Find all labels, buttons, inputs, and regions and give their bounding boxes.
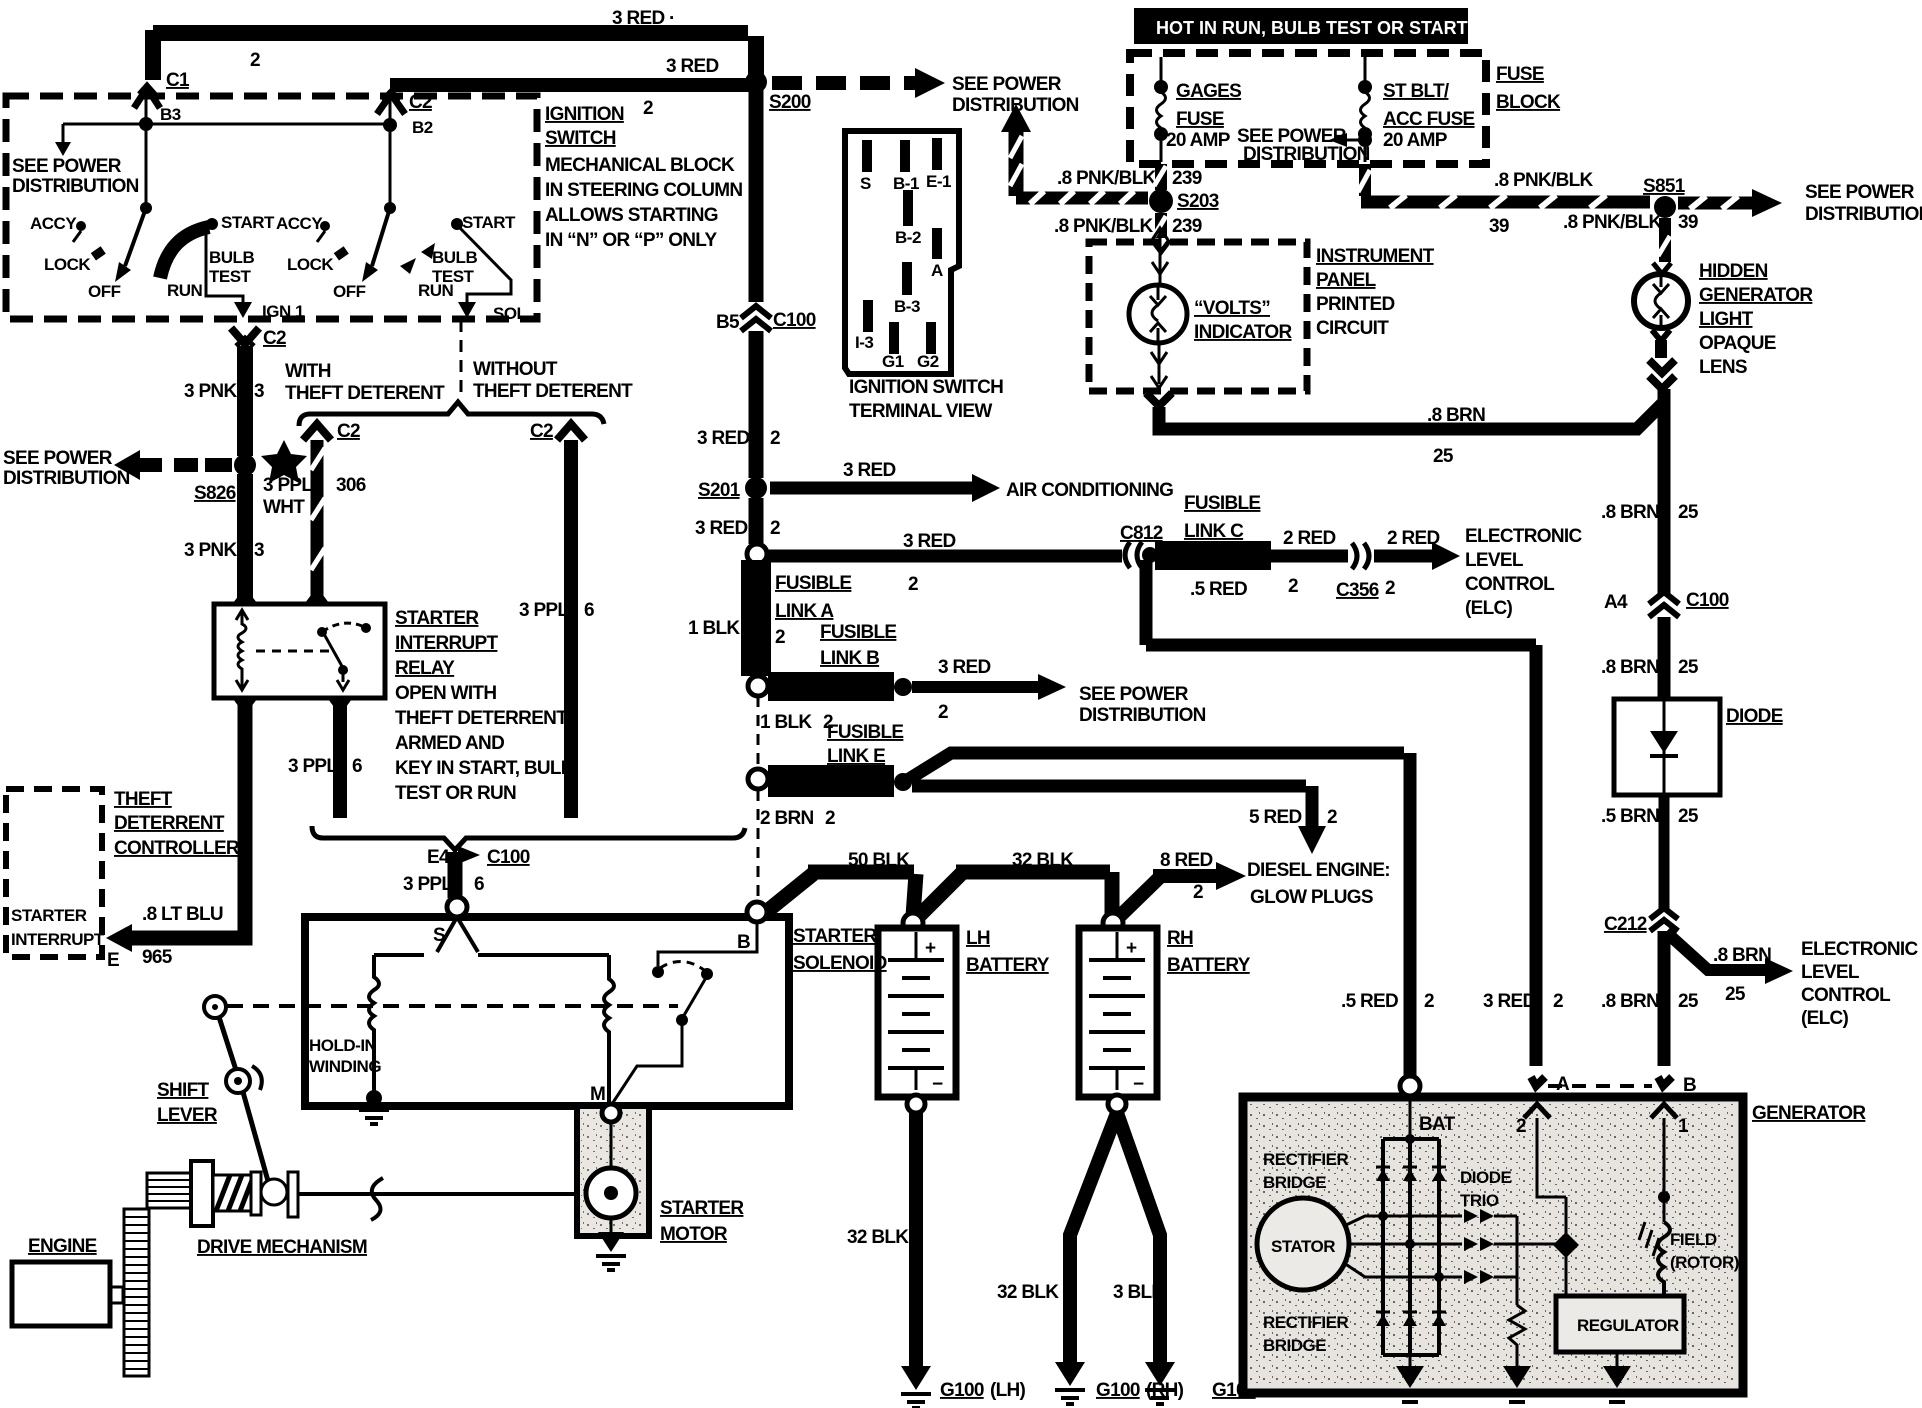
svg-text:HOT IN RUN, BULB TEST OR STAR: HOT IN RUN, BULB TEST OR START: [1156, 18, 1468, 38]
svg-text:THEFT DETERENT: THEFT DETERENT: [285, 383, 445, 404]
svg-text:C212: C212: [1604, 914, 1647, 935]
switch S blade: [437, 917, 457, 952]
svg-text:FUSE: FUSE: [1176, 109, 1224, 130]
switch wiper left: [125, 208, 146, 266]
svg-text:.8 BRN: .8 BRN: [1427, 405, 1485, 426]
dashed wire from SOL: [460, 320, 463, 400]
svg-text:ELECTRONIC: ELECTRONIC: [1465, 526, 1582, 547]
svg-text:LOCK: LOCK: [44, 255, 91, 274]
wire 5 RED arrow: [912, 780, 1306, 793]
svg-text:2: 2: [1553, 991, 1563, 1012]
svg-text:BLOCK: BLOCK: [1496, 92, 1561, 113]
svg-text:LOCK: LOCK: [287, 255, 334, 274]
grounds generator: [1410, 1352, 1617, 1368]
svg-text:STARTER: STARTER: [660, 1198, 744, 1219]
node circle link A/B: [748, 676, 768, 696]
terminal A arrow (2): [1524, 1104, 1550, 1118]
svg-text:.5 RED: .5 RED: [1341, 991, 1398, 1012]
fusible link C: [1155, 541, 1271, 570]
wire 2 RED to C356: [1271, 550, 1348, 563]
wire 3 RED 2 lower: [749, 498, 764, 544]
svg-text:DIODE: DIODE: [1726, 706, 1783, 727]
svg-text:32 BLK: 32 BLK: [847, 1227, 909, 1248]
node S203: [1149, 189, 1173, 213]
svg-text:BRIDGE: BRIDGE: [1263, 1336, 1326, 1355]
drive mechanism: [124, 1209, 149, 1376]
svg-text:IGN 1: IGN 1: [262, 302, 304, 321]
svg-text:IGNITION SWITCH: IGNITION SWITCH: [849, 377, 1003, 398]
wire 3 PPL 6: [564, 440, 578, 818]
svg-text:2: 2: [250, 50, 260, 71]
svg-text:STATOR: STATOR: [1271, 1237, 1335, 1256]
svg-text:25: 25: [1678, 502, 1699, 523]
svg-text:TEST OR RUN: TEST OR RUN: [395, 783, 516, 804]
svg-text:AIR CONDITIONING: AIR CONDITIONING: [1006, 480, 1173, 501]
wire link C down to A: [1140, 560, 1153, 645]
node M terminal: [602, 1104, 620, 1122]
svg-text:3 PNK: 3 PNK: [184, 540, 237, 561]
node B3: [139, 117, 153, 131]
svg-text:3: 3: [254, 381, 264, 402]
svg-text:3 PPL: 3 PPL: [519, 600, 569, 621]
lamp hidden generator light: [1634, 274, 1688, 328]
svg-text:WINDING: WINDING: [309, 1057, 381, 1076]
wire start to SOL: [459, 227, 511, 302]
wire hashed to S203: [1016, 192, 1148, 205]
svg-text:IN STEERING COLUMN: IN STEERING COLUMN: [545, 180, 742, 201]
svg-text:E: E: [107, 950, 119, 971]
rectifier bridge rails: [1409, 1096, 1412, 1139]
svg-text:3 PNK: 3 PNK: [184, 381, 237, 402]
svg-text:CONTROL: CONTROL: [1465, 574, 1555, 595]
terminal B arrow (1): [1651, 1104, 1677, 1118]
svg-text:S200: S200: [769, 92, 811, 113]
svg-text:25: 25: [1678, 657, 1699, 678]
svg-text:8 RED: 8 RED: [1160, 850, 1212, 871]
node S terminal: [447, 897, 467, 917]
field rotor coil: [1658, 1222, 1670, 1296]
svg-text:G2: G2: [917, 352, 939, 371]
node S851: [1654, 196, 1676, 218]
wire 3 PNK lower: [237, 474, 253, 604]
svg-text:SWITCH: SWITCH: [545, 128, 616, 149]
svg-text:TEST: TEST: [432, 267, 475, 286]
svg-text:RUN: RUN: [167, 281, 203, 300]
svg-text:G1: G1: [882, 352, 904, 371]
gages fuse: [1160, 57, 1163, 82]
svg-text:.8 BRN: .8 BRN: [1601, 657, 1659, 678]
shift lever: [204, 996, 226, 1018]
svg-text:3 RED ·: 3 RED ·: [612, 8, 675, 29]
banner hot in run: [1134, 8, 1468, 44]
pull-in winding coil right: [604, 955, 614, 1106]
instrument panel printed circuit box: [1089, 242, 1307, 391]
svg-text:FUSIBLE: FUSIBLE: [1184, 493, 1260, 514]
svg-text:TRIO: TRIO: [1460, 1191, 1499, 1210]
svg-text:C100: C100: [1686, 590, 1729, 611]
svg-text:2: 2: [908, 574, 918, 595]
svg-text:965: 965: [142, 947, 173, 968]
wire 8 RED arrow: [1120, 878, 1159, 916]
svg-text:SEE POWER: SEE POWER: [1079, 684, 1189, 705]
svg-text:DISTRIBUTION: DISTRIBUTION: [1243, 144, 1370, 165]
svg-text:GLOW PLUGS: GLOW PLUGS: [1250, 887, 1373, 908]
svg-text:3 RED: 3 RED: [695, 518, 747, 539]
wire arrow air conditioning: [770, 482, 972, 495]
svg-text:C2: C2: [263, 328, 286, 349]
svg-text:2: 2: [1424, 991, 1434, 1012]
svg-text:MOTOR: MOTOR: [660, 1224, 728, 1245]
fusible link A: [741, 560, 771, 676]
svg-text:B3: B3: [160, 105, 181, 124]
svg-text:3 RED: 3 RED: [843, 460, 895, 481]
wire to B terminal: [1658, 931, 1671, 1066]
svg-text:.8 PNK/BLK: .8 PNK/BLK: [1057, 168, 1157, 189]
svg-text:3 RED: 3 RED: [1483, 991, 1535, 1012]
wire terminal 2 to regulator: [1537, 1118, 1566, 1197]
svg-text:INSTRUMENT: INSTRUMENT: [1316, 246, 1435, 267]
fusible link E: [768, 765, 894, 797]
brace top: [299, 402, 604, 426]
svg-text:.5 RED: .5 RED: [1190, 579, 1247, 600]
svg-text:FIELD: FIELD: [1670, 1230, 1717, 1249]
svg-text:3: 3: [254, 540, 264, 561]
svg-text:DISTRIBUTION: DISTRIBUTION: [1805, 204, 1922, 225]
svg-text:LENS: LENS: [1699, 357, 1747, 378]
svg-text:B-3: B-3: [894, 297, 920, 316]
ground G101: [1145, 1362, 1175, 1386]
connector C100 B5: [741, 306, 771, 318]
stator: [1257, 1198, 1349, 1290]
svg-text:25: 25: [1678, 991, 1699, 1012]
wire 3 RED to C812: [767, 550, 1122, 563]
svg-text:C2: C2: [337, 421, 360, 442]
brace bottom: [312, 826, 745, 850]
svg-text:HIDDEN: HIDDEN: [1699, 261, 1768, 282]
lamp volts indicator: [1159, 230, 1162, 284]
svg-text:25: 25: [1678, 806, 1699, 827]
wire 3 PNK: [237, 346, 253, 456]
svg-text:2: 2: [1385, 578, 1395, 599]
svg-text:2: 2: [643, 98, 653, 119]
wire dashed to B: [757, 790, 760, 906]
svg-text:M: M: [590, 1084, 605, 1105]
svg-text:S: S: [860, 174, 871, 193]
svg-text:39: 39: [1489, 216, 1509, 237]
svg-text:LINK C: LINK C: [1184, 521, 1244, 542]
svg-text:2: 2: [1193, 882, 1203, 903]
wire relay to E: [128, 698, 245, 938]
svg-text:2: 2: [1327, 807, 1337, 828]
svg-text:DRIVE MECHANISM: DRIVE MECHANISM: [197, 1237, 367, 1258]
wire to BAT (gen): [909, 753, 1404, 779]
svg-text:LEVER: LEVER: [157, 1105, 218, 1126]
svg-text:2 RED: 2 RED: [1387, 528, 1439, 549]
svg-text:BULB: BULB: [209, 248, 254, 267]
svg-text:OFF: OFF: [333, 282, 366, 301]
svg-text:(ELC): (ELC): [1801, 1008, 1849, 1029]
wire S851 down to light: [1659, 218, 1671, 262]
wire arrow see power distribution: [912, 681, 1038, 693]
theft deterrent controller box: [6, 789, 102, 957]
svg-text:OPEN WITH: OPEN WITH: [395, 683, 496, 704]
svg-text:3 PPL/: 3 PPL/: [263, 475, 318, 496]
svg-text:.8 BRN: .8 BRN: [1601, 991, 1659, 1012]
svg-text:WHT: WHT: [263, 497, 305, 518]
svg-text:306: 306: [336, 475, 366, 496]
node S200: [745, 71, 767, 93]
svg-text:ACCY: ACCY: [30, 214, 77, 233]
svg-text:A4: A4: [1604, 592, 1628, 613]
svg-text:GAGES: GAGES: [1176, 81, 1241, 102]
svg-text:(ELC): (ELC): [1465, 598, 1513, 619]
svg-text:BATTERY: BATTERY: [966, 955, 1050, 976]
svg-text:WITH: WITH: [285, 361, 331, 382]
svg-text:RECTIFIER: RECTIFIER: [1263, 1313, 1348, 1332]
svg-text:FUSIBLE: FUSIBLE: [827, 722, 903, 743]
svg-text:FUSIBLE: FUSIBLE: [820, 622, 896, 643]
svg-text:PANEL: PANEL: [1316, 270, 1377, 291]
svg-text:239: 239: [1172, 216, 1202, 237]
svg-text:LIGHT: LIGHT: [1699, 309, 1754, 330]
svg-text:OPAQUE: OPAQUE: [1699, 333, 1776, 354]
node BAT: [1400, 1076, 1420, 1096]
wire connector below S203: [1155, 213, 1167, 238]
svg-text:MECHANICAL BLOCK: MECHANICAL BLOCK: [545, 155, 735, 176]
svg-text:20 AMP: 20 AMP: [1166, 130, 1231, 151]
wire gages fuse out: [1155, 164, 1167, 190]
svg-text:CONTROLLER: CONTROLLER: [114, 838, 240, 859]
switch wiper right: [389, 96, 392, 208]
diode box: [1614, 699, 1720, 795]
wire 3 PPL/WHT 306 hashed: [311, 440, 324, 604]
svg-text:25: 25: [1725, 984, 1746, 1005]
contact from B: [658, 922, 757, 966]
ground G100(LH): [901, 1366, 931, 1390]
svg-text:KEY IN START, BULB: KEY IN START, BULB: [395, 758, 574, 779]
svg-text:B5: B5: [716, 312, 740, 333]
wire .5 BRN: [1659, 795, 1670, 910]
svg-text:.8 PNK/BLK: .8 PNK/BLK: [1494, 170, 1594, 191]
svg-text:IN “N” OR “P” ONLY: IN “N” OR “P” ONLY: [545, 230, 717, 251]
svg-text:SOLENOID: SOLENOID: [793, 953, 887, 974]
hold-in winding coil left: [369, 955, 379, 1096]
svg-text:C2: C2: [530, 421, 553, 442]
resistor: [1509, 1305, 1525, 1355]
svg-text:2: 2: [1516, 1116, 1526, 1137]
wire 32 BLK top: [917, 873, 962, 918]
svg-text:BULB: BULB: [432, 248, 477, 267]
connector C2 (with theft): [303, 424, 331, 440]
svg-text:RH: RH: [1167, 928, 1193, 949]
svg-text:ST BLT/: ST BLT/: [1383, 81, 1450, 102]
svg-text:.8 BRN: .8 BRN: [1713, 945, 1771, 966]
svg-text:SEE POWER: SEE POWER: [952, 74, 1062, 95]
svg-text:25: 25: [1433, 446, 1454, 467]
svg-text:32 BLK: 32 BLK: [997, 1282, 1059, 1303]
svg-text:LEVEL: LEVEL: [1801, 962, 1860, 983]
wire 32 BLK LH ground: [909, 1113, 923, 1368]
connector A4 C100: [1649, 592, 1679, 604]
svg-text:LH: LH: [966, 928, 990, 949]
svg-text:G100: G100: [1096, 1380, 1140, 1401]
svg-text:6: 6: [584, 600, 594, 621]
diamond junction: [1517, 1243, 1556, 1246]
svg-text:2: 2: [770, 518, 780, 539]
svg-text:3 BLK: 3 BLK: [1113, 1282, 1165, 1303]
svg-text:2: 2: [938, 702, 948, 723]
svg-text:50 BLK: 50 BLK: [848, 850, 910, 871]
wire terminal 1 to field: [1663, 1118, 1666, 1222]
svg-text:THEFT: THEFT: [114, 789, 173, 810]
wire 3 RED to C2: [390, 78, 752, 92]
wire branch to ELC: [1666, 932, 1765, 970]
svg-text:.8 PNK/BLK: .8 PNK/BLK: [1054, 216, 1154, 237]
svg-text:SOL: SOL: [493, 304, 527, 323]
wire below light: [1652, 330, 1670, 341]
regulator: [1556, 1296, 1684, 1352]
battery RH: [1103, 913, 1123, 933]
wire B3-B2 bus: [63, 123, 390, 126]
connector below instrument panel: [1146, 393, 1172, 406]
svg-text:3 PPL: 3 PPL: [403, 874, 453, 895]
svg-text:6: 6: [352, 756, 362, 777]
svg-text:DETERRENT: DETERRENT: [114, 813, 225, 834]
svg-text:DISTRIBUTION: DISTRIBUTION: [1079, 705, 1206, 726]
connector C812: [1125, 542, 1142, 568]
svg-text:SEE POWER: SEE POWER: [12, 156, 122, 177]
generator box: [1243, 1097, 1743, 1393]
svg-text:DISTRIBUTION: DISTRIBUTION: [12, 176, 139, 197]
svg-text:2 BRN: 2 BRN: [760, 808, 814, 829]
svg-text:ELECTRONIC: ELECTRONIC: [1801, 939, 1918, 960]
starter solenoid box: [305, 917, 789, 1106]
svg-text:GENERATOR: GENERATOR: [1699, 285, 1813, 306]
svg-text:THEFT DETERRENT: THEFT DETERRENT: [395, 708, 568, 729]
svg-text:B: B: [737, 932, 750, 953]
svg-text:OFF: OFF: [88, 282, 121, 301]
node B terminal: [747, 902, 767, 922]
svg-text:BRIDGE: BRIDGE: [1263, 1173, 1326, 1192]
ground hold-in: [359, 1110, 389, 1124]
starter interrupt relay: [214, 604, 385, 698]
svg-text:TEST: TEST: [209, 267, 252, 286]
wire dashed A-B: [1548, 1084, 1652, 1088]
fuse block dashed box: [1130, 53, 1486, 164]
node S826: [234, 454, 256, 476]
starter motor: [577, 1106, 649, 1236]
svg-text:C100: C100: [487, 847, 530, 868]
svg-text:ACCY: ACCY: [276, 214, 323, 233]
svg-text:ALLOWS STARTING: ALLOWS STARTING: [545, 205, 718, 226]
wire 32 BLK / 3 BLK RH split: [1070, 1113, 1117, 1364]
wire dashed: [757, 696, 760, 768]
svg-text:SEE POWER: SEE POWER: [1805, 182, 1915, 203]
svg-text:S851: S851: [1643, 176, 1686, 197]
svg-text:B-1: B-1: [893, 174, 919, 193]
svg-text:“VOLTS”: “VOLTS”: [1194, 298, 1270, 319]
wire 3 PPL 6 relay out: [333, 698, 347, 818]
svg-text:39: 39: [1678, 212, 1698, 233]
svg-text:I-3: I-3: [855, 333, 873, 352]
stator phase wires: [1344, 1216, 1462, 1226]
svg-text:LINK A: LINK A: [775, 601, 834, 622]
svg-text:239: 239: [1172, 168, 1202, 189]
plunger dashed link: [227, 1004, 678, 1008]
svg-text:PRINTED: PRINTED: [1316, 294, 1395, 315]
svg-text:20 AMP: 20 AMP: [1383, 130, 1448, 151]
svg-text:CIRCUIT: CIRCUIT: [1316, 318, 1389, 339]
svg-text:TERMINAL VIEW: TERMINAL VIEW: [849, 401, 992, 422]
svg-text:S201: S201: [698, 480, 741, 501]
ground G100(RH): [1055, 1362, 1085, 1386]
connector C212: [1650, 908, 1678, 919]
svg-text:IGNITION: IGNITION: [545, 104, 624, 125]
svg-text:S826: S826: [194, 483, 236, 504]
wire hashed arrow right: [1678, 197, 1752, 210]
svg-text:SHIFT: SHIFT: [157, 1080, 209, 1101]
wire main feed down: [748, 36, 764, 84]
wire .8 BRN to volts indicator: [1159, 402, 1664, 429]
svg-text:DISTRIBUTION: DISTRIBUTION: [3, 468, 130, 489]
svg-text:STARTER: STARTER: [793, 926, 877, 947]
svg-text:HOLD-IN: HOLD-IN: [309, 1036, 377, 1055]
svg-text:REGULATOR: REGULATOR: [1577, 1316, 1679, 1335]
connector C2 ignition: [377, 94, 405, 114]
svg-text:B: B: [1683, 1075, 1696, 1096]
svg-text:.8 BRN: .8 BRN: [1601, 502, 1659, 523]
svg-text:2: 2: [775, 627, 785, 648]
ignition switch dashed box: [6, 96, 537, 319]
svg-text:6: 6: [474, 874, 484, 895]
svg-text:2 RED: 2 RED: [1283, 528, 1335, 549]
svg-text:S203: S203: [1177, 191, 1219, 212]
svg-text:LEVEL: LEVEL: [1465, 550, 1524, 571]
svg-text:2: 2: [770, 428, 780, 449]
connector C2 (without theft): [557, 424, 585, 440]
svg-text:2: 2: [825, 808, 835, 829]
svg-text:BATTERY: BATTERY: [1167, 955, 1251, 976]
svg-text:1: 1: [1678, 1116, 1689, 1137]
svg-text:3 RED: 3 RED: [938, 657, 990, 678]
svg-text:3 RED: 3 RED: [903, 531, 955, 552]
svg-text:C812: C812: [1120, 523, 1163, 544]
node S201: [745, 477, 767, 499]
node circle link E: [748, 769, 768, 789]
svg-text:1 BLK: 1 BLK: [688, 618, 740, 639]
svg-text:.5 BRN: .5 BRN: [1601, 806, 1659, 827]
svg-text:FUSE: FUSE: [1496, 64, 1544, 85]
wire start to IGN1: [206, 230, 243, 302]
fusible link B: [768, 672, 894, 701]
svg-text:C356: C356: [1336, 580, 1379, 601]
svg-text:START: START: [221, 213, 275, 232]
svg-text:3 PPL: 3 PPL: [288, 756, 338, 777]
svg-text:G100: G100: [940, 1380, 984, 1401]
ignition switch terminal view: [845, 131, 959, 374]
wire st blt fuse out to S851: [1359, 164, 1371, 196]
svg-text:STARTER: STARTER: [11, 906, 87, 925]
svg-text:SEE POWER: SEE POWER: [3, 448, 113, 469]
svg-text:ACC FUSE: ACC FUSE: [1383, 109, 1475, 130]
svg-text:LINK E: LINK E: [827, 746, 885, 767]
svg-text:STARTER: STARTER: [395, 608, 479, 629]
st blt/acc fuse: [1364, 57, 1367, 82]
svg-text:B2: B2: [412, 118, 433, 137]
svg-text:−: −: [932, 1074, 943, 1095]
svg-text:E4: E4: [427, 847, 450, 868]
svg-text:C100: C100: [773, 310, 816, 331]
